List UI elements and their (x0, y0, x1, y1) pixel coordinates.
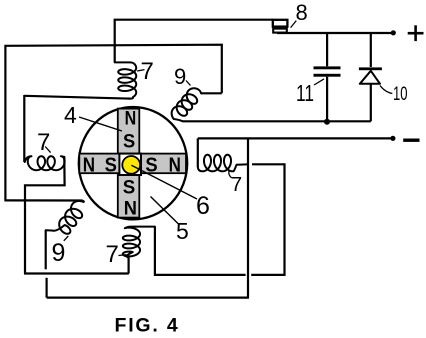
wire middle node rail (182, 120, 370, 122)
wire bottom return horizontal (47, 297, 249, 299)
leader for label 7 right (229, 171, 232, 178)
coil 7 (left stator winding) (25, 156, 65, 170)
capacitor 11 top plate (314, 66, 341, 69)
wire coil9-bottom lower lead upper part (45, 230, 47, 269)
rotor circle 5 (79, 107, 187, 219)
leader for label 9 bottom (64, 236, 69, 241)
wire coil7-right feed (197, 138, 199, 167)
wire coil9-upper feed (201, 92, 222, 94)
wire left horizontal to coil 9 lower-left (4, 199, 82, 201)
svg-text:N: N (125, 108, 137, 130)
svg-text:N: N (83, 154, 95, 177)
svg-text:9: 9 (174, 64, 186, 89)
leader for label 9 top (186, 81, 191, 86)
diode 10 triangle (360, 71, 380, 84)
coil 7 (bottom stator winding) (123, 227, 155, 258)
wire negative rail (198, 137, 393, 139)
wire positive rail (277, 32, 394, 34)
wire crossing right of V1 lower (251, 164, 284, 275)
leader for label 5 (151, 197, 180, 225)
terminal dot + (391, 30, 396, 35)
svg-text:S: S (123, 177, 136, 199)
svg-text:N: N (124, 198, 137, 220)
svg-text:6: 6 (196, 192, 210, 220)
plus terminal symbol (408, 25, 424, 41)
wire coil7-left return (25, 157, 65, 274)
switch 8 upper contact bar (273, 20, 288, 27)
capacitor 11 bottom wire (326, 77, 328, 122)
svg-text:FIG. 4: FIG. 4 (115, 314, 180, 336)
switch 8 lower contact bar (273, 29, 287, 33)
svg-text:S: S (145, 154, 157, 177)
coil 7 (top stator winding) (115, 62, 137, 98)
svg-text:11: 11 (296, 80, 314, 106)
wire coil7-top bottom link (24, 96, 130, 99)
coil 7 bottom lower lead (128, 257, 130, 274)
leader for label 6 (131, 165, 197, 199)
leader for label 4 (79, 117, 122, 131)
leader for label 7 bottom (119, 254, 127, 257)
capacitor 11 top wire (326, 33, 328, 66)
junction dot capacitor-node (324, 119, 330, 125)
wire top rail to switch (115, 20, 273, 63)
svg-text:7: 7 (37, 129, 50, 156)
wire V1 vertical return (247, 139, 249, 298)
minus terminal symbol (403, 139, 419, 142)
svg-text:5: 5 (176, 218, 189, 244)
svg-text:7: 7 (141, 58, 154, 85)
svg-text:4: 4 (64, 102, 77, 128)
diode 10 bottom wire (370, 84, 372, 122)
rotor hub (yellow) 6 (122, 156, 140, 174)
leader for label 7 left (45, 147, 50, 153)
svg-text:10: 10 (393, 83, 408, 105)
svg-text:9: 9 (52, 239, 66, 267)
svg-text:8: 8 (296, 0, 308, 25)
wire bottom-left horizontal (24, 272, 129, 274)
coil 9 (upper-right stator winding) (172, 88, 201, 121)
svg-text:S: S (105, 154, 117, 177)
leader for label 7 top (137, 70, 144, 71)
coil 9 (lower-left stator winding) (46, 201, 84, 234)
leader for label 11 (314, 79, 324, 85)
wire coil7-bottom upper lead down (155, 227, 246, 275)
rotor center cell (119, 154, 141, 175)
svg-text:7: 7 (106, 241, 119, 268)
wire coil9-bottom lower lead lower part (45, 278, 47, 298)
leader for label 10 (380, 86, 392, 94)
wire left inner vertical (23, 95, 25, 162)
svg-text:7: 7 (231, 174, 242, 196)
rotor horizontal pole arm (79, 154, 186, 174)
diode 10 top wire (370, 33, 372, 67)
svg-text:N: N (169, 154, 181, 177)
coil 7 (right stator winding) (198, 155, 247, 172)
leader for label 8 (291, 21, 297, 28)
capacitor 11 bottom plate (314, 74, 341, 77)
rotor vertical pole arm (118, 109, 140, 218)
terminal dot - (390, 136, 395, 141)
svg-text:S: S (123, 131, 135, 153)
wire left supply branch (5, 45, 221, 201)
diode 10 cathode bar (359, 67, 382, 70)
